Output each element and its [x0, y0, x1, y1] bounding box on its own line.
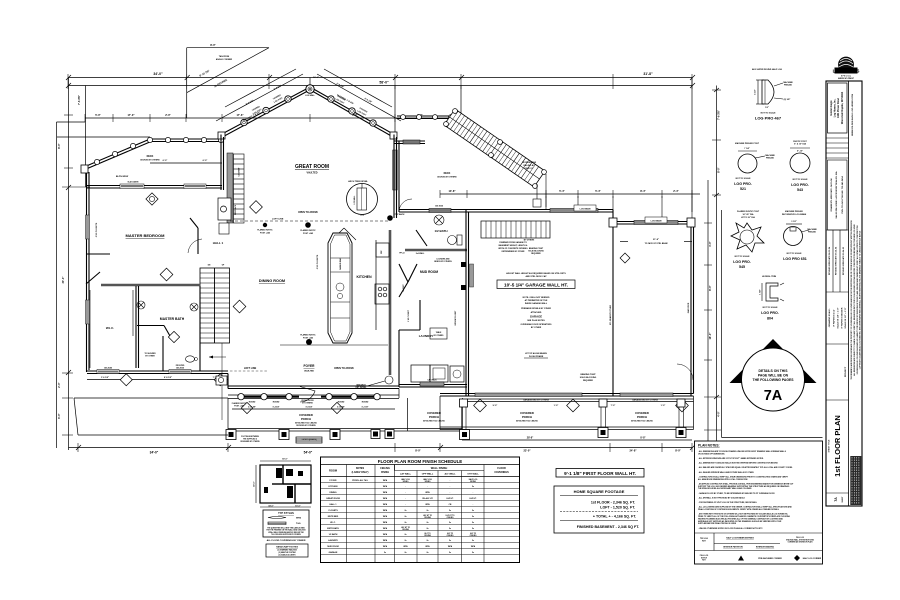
svg-text:LOG PRO.: LOG PRO. [734, 182, 752, 186]
svg-text:KITCHEN: KITCHEN [329, 486, 338, 488]
NE deck [397, 116, 460, 119]
svg-text:OPP WALL: OPP WALL [422, 473, 434, 476]
svg-text:STL BEAM BY OTHER: STL BEAM BY OTHER [609, 304, 612, 325]
svg-text:COVERINGS: COVERINGS [494, 471, 509, 474]
svg-text:CEILING: CEILING [447, 517, 455, 519]
svg-text:MASTER BATH: MASTER BATH [160, 317, 185, 321]
wdw diamonds on dim [120, 374, 132, 386]
svg-text:FLARED RUSTIC POST: FLARED RUSTIC POST [737, 210, 760, 213]
connection line to plan notes [722, 437, 823, 439]
RIGHTCOL [730, 68, 818, 411]
svg-text:CEILING: CEILING [380, 467, 390, 470]
svg-text:- FOR FASTENING OF SPLIT LOG O: - FOR FASTENING OF SPLIT LOG ON THE STRU… [698, 501, 758, 504]
svg-text:REVISED MRB DATE 09-14-04: REVISED MRB DATE 09-14-04 [835, 246, 838, 275]
svg-text:ROUND: ROUND [273, 402, 280, 404]
svg-text:WPA: WPA [383, 515, 388, 518]
svg-text:ALL DIMENSIONS ARE SUBJECT TO: ALL DIMENSIONS ARE SUBJECT TO CHANGE. PL… [853, 223, 856, 375]
svg-text:PRE-MACHINED CORNER: PRE-MACHINED CORNER [758, 557, 782, 560]
foyer vault [332, 228, 344, 240]
svg-text:WPA: WPA [383, 479, 388, 482]
stair ne posts [444, 109, 547, 189]
wall great room gable right slope [310, 87, 395, 137]
svg-text:TAN FROM: TAN FROM [219, 55, 230, 58]
svg-text:GAR DOOR: GAR DOOR [687, 302, 690, 313]
svg-text:6" & 10" DIA: 6" & 10" DIA [794, 143, 806, 146]
svg-text:1 7/8": 1 7/8" [760, 289, 762, 294]
window master north 2 [184, 184, 206, 189]
svg-text:FLARED RUSTIC: FLARED RUSTIC [300, 334, 316, 337]
svg-text:CB 3050: CB 3050 [435, 206, 444, 208]
svg-text:WDTH OF CONCRETE OPENING: WDTH OF CONCRETE OPENING [498, 248, 528, 250]
svg-text:18 RISERS AND: 18 RISERS AND [522, 161, 537, 164]
detail LOG PRO 521 [734, 142, 775, 191]
svg-text:4421 Plover Road: 4421 Plover Road [837, 97, 840, 117]
svg-text:ADJUST WALL HEIGHT AS REQUIRED: ADJUST WALL HEIGHT AS REQUIRED BASED ON … [506, 272, 566, 275]
svg-text:34'-0": 34'-0" [153, 72, 163, 76]
svg-text:5'-4": 5'-4" [559, 189, 565, 193]
svg-text:16'-0": 16'-0" [295, 506, 300, 508]
wic shelving [90, 290, 133, 368]
wire bottom overall dim line [69, 447, 693, 449]
svg-text:HALF LOG CORNER: HALF LOG CORNER [803, 557, 822, 560]
svg-text:T&G CEILINGS SUPPLIED BY OTHER: T&G CEILINGS SUPPLIED BY OTHERS [271, 534, 300, 536]
HOUSE [74, 69, 695, 443]
detail LOG PRO 651 [782, 210, 817, 261]
svg-text:KITCHEN: KITCHEN [356, 275, 372, 279]
svg-text:- ALL DIMENSIONS TO ANGLED WAL: - ALL DIMENSIONS TO ANGLED WALLS MUST BE… [698, 462, 779, 465]
window east wing [429, 209, 451, 213]
svg-text:5'-4": 5'-4" [595, 189, 601, 193]
svg-text:34'-0": 34'-0" [150, 451, 159, 455]
svg-text:SUPPLIER BEFORE FINAL PRICING: SUPPLIER BEFORE FINAL PRICING IS GIVEN [698, 522, 737, 525]
svg-text:BY OTHERS: BY OTHERS [434, 335, 445, 337]
wall master north (under deck) [87, 186, 222, 189]
svg-text:NOT TO SCALE: NOT TO SCALE [787, 252, 803, 255]
svg-text:BY OTHER: BY OTHER [531, 327, 542, 329]
svg-text:804: 804 [767, 317, 773, 321]
handcraft notes box [266, 544, 308, 557]
svg-text:LOG PRO 651: LOG PRO 651 [783, 257, 807, 261]
svg-text:AT TOP ALIGN BEAMS: AT TOP ALIGN BEAMS [525, 352, 547, 355]
svg-text:- DRAWING SCALE -: - DRAWING SCALE - [828, 308, 831, 329]
svg-text:CB+HLF HT.: CB+HLF HT. [422, 498, 433, 500]
svg-text:WPA: WPA [383, 527, 388, 530]
wall east wing (bath/mud) top [399, 141, 467, 212]
svg-text:10'-5 1/4" GARAGE WALL HT.: 10'-5 1/4" GARAGE WALL HT. [504, 283, 568, 288]
porch posts ornate [226, 430, 470, 440]
hall door arc [188, 239, 202, 253]
wall great room west [221, 135, 224, 191]
svg-text:PORCH: PORCH [429, 415, 439, 419]
thin rows [826, 138, 849, 158]
svg-text:WPA: WPA [383, 485, 388, 488]
svg-text:FLARED RUSTIC: FLARED RUSTIC [257, 229, 273, 232]
svg-text:NOT TO SCALE: NOT TO SCALE [763, 306, 779, 309]
svg-text:DET. DETAIL: DET. DETAIL [356, 386, 368, 389]
svg-text:POST +545: POST +545 [303, 337, 313, 340]
svg-text:2x6 WALL: 2x6 WALL [416, 252, 425, 255]
garage door bars [475, 393, 582, 397]
svg-text:SEE PLAN NOTES: SEE PLAN NOTES [527, 319, 545, 322]
svg-text:THE FOLLOWING PAGES: THE FOLLOWING PAGES [753, 378, 795, 382]
svg-text:LAUNDRY: LAUNDRY [328, 539, 338, 542]
svg-text:WPA: WPA [383, 521, 388, 524]
svg-text:HANDCRAFT NOTES: HANDCRAFT NOTES [276, 546, 298, 549]
svg-text:PLAN NOTES:: PLAN NOTES: [698, 444, 720, 448]
svg-text:ADJ SUPER ROUND HALF LOG: ADJ SUPER ROUND HALF LOG [752, 68, 783, 71]
svg-text:STEP BACK: STEP BACK [394, 213, 406, 216]
svg-text:ROOM: ROOM [329, 469, 337, 473]
svg-text:58'-0": 58'-0" [379, 81, 389, 85]
west wall windows [86, 215, 90, 239]
svg-text:9'-8 1/2": 9'-8 1/2" [164, 377, 172, 379]
svg-text:DECK: DECK [147, 155, 154, 158]
svg-text:HALL 1: HALL 1 [213, 241, 224, 245]
kitchen cabinets [389, 230, 392, 375]
drawn by box [828, 160, 848, 230]
svg-text:STAIRWAY FROM GARAGE TO: STAIRWAY FROM GARAGE TO [499, 241, 527, 244]
svg-text:LOG HOMES: LOG HOMES [833, 68, 860, 73]
svg-text:16"-20" DIA: 16"-20" DIA [742, 213, 754, 216]
svg-text:INTERIOR PARTITION: INTERIOR PARTITION [723, 546, 743, 549]
stair arrow [209, 356, 226, 358]
drawing scale box [826, 343, 849, 345]
tick slashes [66, 75, 719, 450]
svg-text:543: 543 [797, 188, 803, 192]
svg-text:21'-8": 21'-8" [653, 239, 659, 241]
wire left vertical dim line [68, 78, 70, 451]
svg-text:6"-10": 6"-10" [797, 151, 803, 153]
svg-text:CLOSET: CLOSET [239, 167, 241, 177]
arch det circle [385, 376, 393, 384]
svg-text:1'-0": 1'-0" [661, 405, 666, 407]
svg-text:SOLID BLOCKING: SOLID BLOCKING [580, 377, 597, 379]
svg-text:CEILING: CEILING [447, 535, 455, 537]
BOTTOM [253, 438, 823, 565]
svg-text:7 1/4": 7 1/4" [744, 147, 749, 150]
svg-text:W.I.C.: W.I.C. [330, 522, 336, 524]
svg-text:(3) GABLE ACCENTS: (3) GABLE ACCENTS [279, 554, 297, 557]
wire right extension line to plan notes [721, 210, 723, 438]
svg-text:SCALE IS 1/4" = 1'-0": SCALE IS 1/4" = 1'-0" [837, 308, 840, 329]
svg-text:POST +545: POST +545 [260, 232, 270, 235]
wire interior dim line y118 [85, 117, 455, 119]
svg-text:PROJECT: PROJECT [845, 366, 847, 377]
svg-text:MACHINE PEELED: MACHINE PEELED [785, 210, 803, 213]
svg-text:PORCH: PORCH [301, 417, 311, 421]
svg-text:GREAT ROOM: GREAT ROOM [295, 164, 329, 170]
stair ne lower rails [533, 174, 546, 207]
svg-text:3 STEPS (RISERS): 3 STEPS (RISERS) [302, 439, 317, 441]
left porch lines [74, 398, 228, 435]
half bath [405, 249, 467, 251]
flared post great room e [387, 215, 393, 221]
address box [828, 83, 848, 133]
svg-text:- ALL DRYWALL IS NOT PROVIDED: - ALL DRYWALL IS NOT PROVIDED BY GOLDEN … [698, 496, 746, 499]
svg-text:OPEN TO ABOVE: OPEN TO ABOVE [334, 367, 354, 370]
wall great room east [394, 135, 397, 219]
svg-text:3 1/2": 3 1/2" [791, 221, 796, 223]
svg-text:AT TO 20" DIA: AT TO 20" DIA [741, 216, 755, 219]
window east wing top [403, 140, 420, 144]
wire left vertical dim line 2 [85, 86, 87, 188]
home square footage box [554, 486, 644, 533]
svg-text:1st FLOOR PLAN: 1st FLOOR PLAN [833, 415, 842, 477]
svg-text:FINISH: FINISH [381, 471, 389, 474]
svg-text:NOT TO SCALE: NOT TO SCALE [735, 255, 751, 258]
svg-text:FINAL LOCATIONS OF CONTINUOUS: FINAL LOCATIONS OF CONTINUOUS ELEMENTS. … [698, 508, 780, 511]
svg-text:5'-2 1/8": 5'-2 1/8" [362, 407, 369, 409]
wic door [86, 272, 100, 284]
svg-text:8'-0": 8'-0" [708, 284, 712, 290]
svg-text:OTH WALL: OTH WALL [467, 473, 479, 476]
svg-text:SHEET: SHEET [842, 496, 844, 503]
svg-text:+ TOTAL + - 4,166 SQ. FT.: + TOTAL + - 4,166 SQ. FT. [593, 515, 636, 519]
svg-text:REVISED MRB DATE 08-12-04: REVISED MRB DATE 08-12-04 [828, 246, 831, 275]
svg-text:WPA: WPA [425, 545, 430, 548]
svg-text:OVERHEAD DOOR OPERATORS: OVERHEAD DOOR OPERATORS [521, 323, 553, 326]
svg-text:CLOSETS: CLOSETS [328, 510, 338, 512]
svg-text:WPA: WPA [425, 491, 430, 494]
svg-text:1'-0": 1'-0" [554, 405, 559, 407]
svg-text:WPA: WPA [425, 503, 430, 506]
svg-text:5'-4 3/4": 5'-4 3/4" [273, 406, 280, 409]
svg-text:+804: +804 [360, 214, 364, 217]
key plan [253, 459, 312, 508]
svg-text:5'-8 3/4": 5'-8 3/4" [306, 406, 313, 409]
svg-text:DECK: DECK [444, 172, 451, 175]
svg-text:PROFIL ALL T&G: PROFIL ALL T&G [352, 479, 368, 482]
master interior walls [101, 284, 200, 287]
svg-text:- ALL DASHED INTERIOR WALLS AR: - ALL DASHED INTERIOR WALLS ARE FUTURE W… [698, 471, 755, 474]
svg-text:GARAGE: GARAGE [530, 315, 542, 319]
svg-text:DECKING BY OTHERS: DECKING BY OTHERS [140, 160, 160, 162]
deck dims [150, 162, 222, 164]
svg-text:POST +545: POST +545 [303, 232, 313, 235]
svg-text:17'-6": 17'-6" [236, 113, 244, 117]
svg-text:MACHINE PEELED POST: MACHINE PEELED POST [735, 142, 760, 145]
svg-text:CB-3050: CB-3050 [176, 368, 185, 370]
svg-text:ATTACHED T&G CEILING: ATTACHED T&G CEILING [423, 420, 445, 423]
window master north 1 [120, 184, 144, 189]
porch dims [232, 408, 395, 410]
svg-text:1/2 BATH: 1/2 BATH [329, 533, 338, 536]
svg-text:8'-0": 8'-0" [415, 449, 421, 453]
svg-text:17'-0": 17'-0" [127, 113, 135, 117]
first floor wall height box [556, 469, 644, 478]
log beams hatch [550, 209, 598, 213]
svg-text:ARCH TRIM DETAIL: ARCH TRIM DETAIL [348, 180, 368, 183]
svg-text:FROSTED: FROSTED [176, 365, 185, 367]
garage [440, 210, 694, 397]
svg-text:5'-0": 5'-0" [95, 113, 101, 117]
svg-text:IF PAPER IS 2'x3': IF PAPER IS 2'x3' [833, 309, 836, 327]
ladder to loft [234, 154, 245, 223]
svg-text:7A: 7A [764, 388, 783, 404]
svg-text:HOME SQUARE FOOTAGE: HOME SQUARE FOOTAGE [574, 489, 625, 494]
svg-text:J 1/2 CLOSET: J 1/2 CLOSET [408, 309, 410, 322]
svg-text:23'-0": 23'-0" [523, 449, 531, 453]
svg-text:PEELED: PEELED [784, 85, 793, 87]
svg-text:LOFT - 1,520 SQ. FT.: LOFT - 1,520 SQ. FT. [600, 506, 635, 510]
svg-text:CB-3040: CB-3040 [104, 367, 113, 370]
svg-text:MUD ROOM: MUD ROOM [327, 546, 339, 548]
svg-text:T&G: T&G [296, 523, 301, 525]
svg-text:WPA: WPA [383, 509, 388, 512]
svg-text:1/2": 1/2" [765, 107, 769, 109]
svg-text:LAT WALL: LAT WALL [400, 473, 412, 476]
svg-text:SIDING: SIDING [403, 481, 410, 483]
svg-text:SALES RM: HOME / ACCESSORY DEA: SALES RM: HOME / ACCESSORY DEALER: N/A [835, 171, 838, 218]
svg-text:MUD ROOM: MUD ROOM [420, 270, 438, 274]
gable dim strings [216, 69, 401, 121]
svg-text:LAUNDRY: LAUNDRY [419, 334, 434, 338]
svg-text:LOG WALL: LOG WALL [353, 196, 356, 205]
svg-text:16'-0": 16'-0" [708, 332, 712, 340]
svg-text:FULL LOG: FULL LOG [796, 537, 805, 539]
svg-text:SIDING: SIDING [425, 481, 432, 483]
svg-text:- UNLESS OTHERWISE NOTED ON FL: - UNLESS OTHERWISE NOTED ON FLOOR PLANS … [698, 527, 764, 530]
fireplace west of great room [218, 198, 231, 220]
svg-text:CAT WALK: CAT WALK [427, 379, 437, 382]
svg-text:8'-0": 8'-0" [717, 166, 721, 172]
svg-text:8'-0": 8'-0" [210, 43, 216, 47]
svg-text:8'-8": 8'-8" [640, 437, 645, 440]
svg-text:IF PAPER IS BIGGER: IF PAPER IS BIGGER [841, 307, 844, 328]
svg-text:AND STRL DECK CAP: AND STRL DECK CAP [525, 275, 547, 278]
title block frame [826, 81, 862, 506]
svg-text:6'-0": 6'-0" [163, 160, 168, 162]
svg-text:- ALL EXTERIOR WINDOWS ARE 2 P: - ALL EXTERIOR WINDOWS ARE 2 PCS TOP/OUT… [698, 457, 764, 460]
svg-text:DECK CO.: DECK CO. [524, 168, 534, 170]
svg-text:PPL.D: PPL.D [399, 253, 405, 255]
window master south 2 [169, 365, 191, 374]
flared post foyer [306, 339, 312, 345]
svg-text:WPA: WPA [383, 497, 388, 500]
svg-text:DECKING BY OTHERS: DECKING BY OTHERS [296, 425, 316, 427]
svg-text:545: 545 [739, 265, 745, 269]
svg-text:LOFT LINE: LOFT LINE [244, 367, 257, 370]
svg-text:4'-0": 4'-0" [717, 410, 721, 416]
svg-text:SHEET TITLE: SHEET TITLE [829, 439, 831, 452]
company logo [833, 57, 860, 80]
deck ne posts [401, 115, 454, 120]
svg-text:RAISED BAR: RAISED BAR [339, 257, 342, 269]
svg-text:7A: 7A [834, 497, 838, 502]
svg-text:- GARAGE FLOOR BY OTHER, TO BE: - GARAGE FLOOR BY OTHER, TO BE DETERMINE… [698, 492, 775, 495]
svg-text:6'-0": 6'-0" [203, 160, 208, 162]
svg-text:CEILING: CEILING [402, 529, 410, 531]
svg-text:9'-0": 9'-0" [493, 405, 498, 407]
deck door arc [399, 199, 412, 212]
hall walls / foyer [87, 218, 198, 254]
east porch posts [460, 399, 687, 438]
svg-text:VAULTED: VAULTED [304, 370, 314, 373]
wire garage top dim line [440, 193, 700, 195]
TITLEBLOCK [826, 57, 862, 506]
svg-text:SIDING: SIDING [470, 481, 477, 483]
svg-text:HALL 1: HALL 1 [330, 503, 338, 506]
porch slab [228, 389, 463, 432]
svg-text:2'-4": 2'-4" [673, 189, 679, 193]
svg-text:HALF LOG/TIMBER ENTRIES: HALF LOG/TIMBER ENTRIES [726, 537, 754, 540]
svg-text:PHN: 715-341-7118 FAX: 715-3: PHN: 715-341-7118 FAX: 715-341-0414 [841, 176, 844, 214]
svg-text:ANGLE CORNER: ANGLE CORNER [216, 58, 233, 61]
svg-text:7'-6 7/8": 7'-6 7/8" [77, 94, 81, 105]
svg-text:SLDG ABVE: SLDG ABVE [128, 181, 140, 184]
svg-text:521: 521 [740, 187, 746, 191]
svg-text:WPA: WPA [296, 517, 301, 520]
svg-text:BROOM CLOSET: BROOM CLOSET [455, 310, 457, 326]
porch columns [238, 394, 380, 400]
svg-text:LB REGL TRIM: LB REGL TRIM [762, 276, 777, 278]
svg-text:WPA: WPA [448, 545, 453, 548]
svg-text:FLOOR PLAN ROOM FINISH SCHEDUL: FLOOR PLAN ROOM FINISH SCHEDULE [378, 459, 462, 464]
svg-text:MSTR BED: MSTR BED [328, 516, 339, 518]
svg-text:ROUND: ROUND [249, 402, 256, 404]
arch trim detail circle [347, 184, 378, 215]
wire outer left vertical dim [56, 122, 58, 448]
detail LOG PRO 543 [790, 141, 810, 192]
svg-text:PORCH: PORCH [522, 415, 532, 419]
detail LOG PRO 467 [752, 68, 793, 121]
svg-text:ATTACHED T&G CEILING: ATTACHED T&G CEILING [631, 420, 653, 423]
svg-text:INTERIOR BEARING: INTERIOR BEARING [756, 546, 775, 549]
svg-text:Wisconsin Rapids, WI 54494: Wisconsin Rapids, WI 54494 [841, 91, 844, 124]
bath fixtures [186, 356, 195, 362]
svg-text:FINISHED BASEMENT - 2,346 SQ F: FINISHED BASEMENT - 2,346 SQ FT. [577, 525, 640, 529]
svg-text:CEILING: CEILING [424, 535, 432, 537]
svg-text:REQUIRED: REQUIRED [583, 380, 594, 382]
svg-text:AMERICA'S FINEST: AMERICA'S FINEST [838, 77, 855, 80]
svg-text:DETERMINED BY OTHER: DETERMINED BY OTHER [502, 251, 525, 253]
svg-text:J 1/2 CLOSETS: J 1/2 CLOSETS [96, 222, 98, 237]
svg-text:FOYER: FOYER [330, 480, 337, 482]
svg-text:DINING ROOM: DINING ROOM [259, 279, 285, 283]
svg-text:LOG PRO 467: LOG PRO 467 [755, 116, 782, 121]
svg-text:FOYER: FOYER [304, 364, 316, 368]
stair from garage [481, 221, 550, 238]
detail LOG PRO 804 [760, 276, 785, 321]
wall foyer south [228, 374, 399, 389]
svg-text:HLF HT.: HLF HT. [446, 498, 454, 500]
svg-text:2'-0": 2'-0" [165, 113, 171, 117]
svg-text:5'-10 3/8": 5'-10 3/8" [337, 407, 345, 409]
svg-text:6'-0": 6'-0" [57, 412, 61, 418]
svg-text:8'-0": 8'-0" [57, 142, 61, 148]
post hall [263, 223, 267, 227]
svg-text:CLOSET: CLOSET [403, 283, 405, 291]
project box [826, 399, 849, 401]
svg-text:RAILING BY: RAILING BY [524, 164, 536, 167]
svg-text:REVISED MRB DATE 05-04-05: REVISED MRB DATE 05-04-05 [842, 246, 845, 275]
svg-text:BY OTHERS: BY OTHERS [302, 403, 313, 405]
svg-text:BASEMENT HEIGHT, LENGTH &: BASEMENT HEIGHT, LENGTH & [499, 244, 528, 247]
svg-text:WPA: WPA [471, 545, 476, 548]
svg-text:LOG PRO.: LOG PRO. [733, 260, 751, 264]
svg-text:HLF HT.: HLF HT. [469, 498, 477, 500]
gable ridge post [306, 85, 314, 93]
svg-text:PEELED: PEELED [808, 232, 817, 234]
svg-text:CEILING: CEILING [424, 517, 432, 519]
stair run NE deck [444, 109, 545, 187]
svg-text:40'-0": 40'-0" [253, 481, 256, 486]
svg-text:THE SPAN INCLUDES ALL NECESSAR: THE SPAN INCLUDES ALL NECESSARY WALLS AN… [698, 487, 752, 490]
svg-text:MSTR BATH: MSTR BATH [327, 527, 339, 530]
revised grid [826, 230, 849, 292]
svg-text:50'-0": 50'-0" [282, 459, 287, 461]
svg-text:WPA: WPA [383, 503, 388, 506]
